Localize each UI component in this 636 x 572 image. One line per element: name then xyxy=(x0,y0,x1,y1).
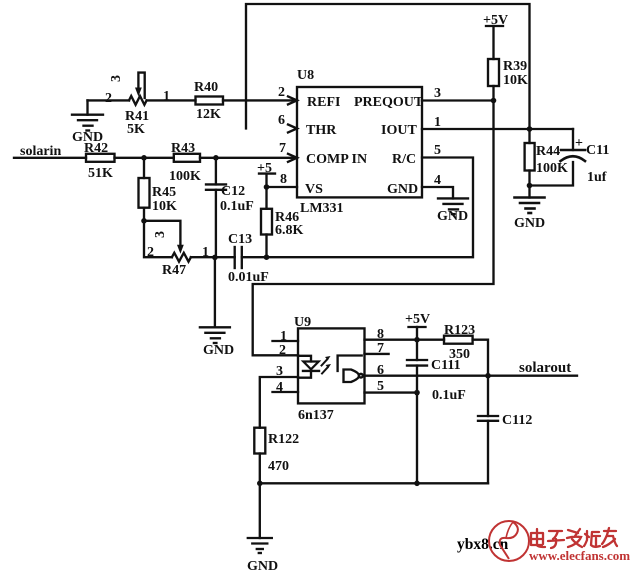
junction R44/C11 bottom xyxy=(527,183,533,189)
label R47 pin 1 xyxy=(202,245,209,260)
power +5V top symbol xyxy=(486,26,503,59)
label U9 pin 6 xyxy=(377,363,384,378)
svg-text:5: 5 xyxy=(377,379,384,394)
label R45 value xyxy=(152,185,177,214)
label C12 value xyxy=(220,184,254,214)
label C112 xyxy=(502,413,532,428)
label U8 GND xyxy=(387,182,418,197)
ground GND2 symbol xyxy=(515,198,545,214)
photon arrows inside U9 xyxy=(322,356,332,374)
label R39 value xyxy=(503,59,528,88)
label U9 pin 8 xyxy=(377,327,384,342)
wire R39 bottom to PREQOUT junction xyxy=(492,86,494,101)
svg-text:R123: R123 xyxy=(444,323,475,338)
resistor R123 xyxy=(444,336,473,344)
label U8 REFI xyxy=(307,95,340,110)
label pin 2 REFI xyxy=(278,85,285,100)
svg-text:10K: 10K xyxy=(503,73,528,88)
label pin 7 COMP IN xyxy=(279,141,286,156)
junction R42/R45 xyxy=(141,155,147,161)
op-amp U8 LM331 box xyxy=(297,87,422,197)
svg-text:1uf: 1uf xyxy=(587,170,607,185)
svg-text:solarin: solarin xyxy=(20,144,61,159)
label solarin xyxy=(20,144,61,159)
label GND2 xyxy=(514,216,545,231)
capacitor C11 plates xyxy=(561,150,586,161)
label pin 3 xyxy=(434,86,441,101)
junction IOUT/R44 xyxy=(527,126,533,132)
watermark ybx8.cn xyxy=(457,536,509,553)
capacitor C112 plates xyxy=(478,416,498,421)
svg-text:GND: GND xyxy=(387,182,418,197)
wire R122 junction to GND5 xyxy=(259,483,261,538)
svg-text:470: 470 xyxy=(268,459,289,474)
junction rail/C111 xyxy=(414,481,420,487)
logo elecfans circle xyxy=(489,521,529,561)
potentiometer R41 wiper xyxy=(135,73,145,98)
svg-text:3: 3 xyxy=(153,231,168,238)
capacitor C11 bottom wire xyxy=(530,162,574,186)
capacitor C11 top wire xyxy=(572,129,574,150)
resistor R40 xyxy=(196,97,224,105)
wire PREQOUT pin 3 xyxy=(422,99,494,101)
wire top loop to R44 xyxy=(528,129,530,143)
svg-text:10K: 10K xyxy=(152,199,177,214)
wire R45 bottom to junction xyxy=(143,208,145,221)
capacitor C112 top wire xyxy=(487,376,489,416)
svg-text:IOUT: IOUT xyxy=(381,123,417,138)
capacitor C112 bottom wire xyxy=(487,421,489,484)
junction solarout/C112 xyxy=(485,373,491,379)
label R44 value xyxy=(536,144,568,176)
power +5 VS bar xyxy=(259,174,275,187)
label GND4 xyxy=(203,343,234,358)
svg-text:REFI: REFI xyxy=(307,95,340,110)
svg-text:6: 6 xyxy=(377,363,384,378)
wire R122 bottom to rail junction xyxy=(259,454,261,484)
svg-text:0.1uF: 0.1uF xyxy=(220,199,254,214)
label R42 value xyxy=(84,141,113,181)
svg-text:R43: R43 xyxy=(171,141,195,156)
wire R47 pin1 to C12/C13 junction xyxy=(191,256,235,258)
potentiometer R41 zigzag xyxy=(129,96,147,105)
label U9 xyxy=(294,315,311,330)
label GND3 xyxy=(437,209,468,224)
junction PREQOUT/R39 xyxy=(491,98,497,104)
svg-text:5: 5 xyxy=(434,143,441,158)
svg-text:U9: U9 xyxy=(294,315,311,330)
label GND1 xyxy=(72,130,103,145)
wire U9 pin1 stub xyxy=(273,340,299,342)
ground GND4 wire xyxy=(214,257,216,327)
label GND5 xyxy=(247,559,278,572)
resistor R122 xyxy=(254,428,265,454)
label +5V bottom xyxy=(405,312,430,327)
junction R122/rail xyxy=(257,481,263,487)
label U8 R/C xyxy=(392,152,416,167)
svg-text:+5: +5 xyxy=(257,161,272,176)
label R47 pin 2 xyxy=(147,245,154,260)
label U8 xyxy=(297,68,314,83)
svg-text:3: 3 xyxy=(276,364,283,379)
svg-text:8: 8 xyxy=(280,172,287,187)
label R41 pin 3 rotated xyxy=(109,75,124,82)
logo elecfans url xyxy=(529,548,630,563)
wire R44 bottom xyxy=(528,171,530,198)
junction pin8/+5V xyxy=(414,337,420,343)
svg-text:5K: 5K xyxy=(127,122,145,137)
label R47 xyxy=(162,263,186,278)
svg-text:+5V: +5V xyxy=(405,312,430,327)
resistor R43 xyxy=(174,154,200,162)
label R46 value xyxy=(275,210,304,238)
label R47 pin 3 rotated xyxy=(153,231,168,238)
svg-text:R47: R47 xyxy=(162,263,186,278)
label R41 pin 1 xyxy=(163,89,170,104)
label U8 THR xyxy=(306,123,337,138)
resistor R39 xyxy=(488,59,499,86)
label U9 pin 2 xyxy=(279,343,286,358)
label U8 VS xyxy=(305,182,323,197)
svg-text:3: 3 xyxy=(434,86,441,101)
label +5V top xyxy=(483,13,508,28)
label C11 plus xyxy=(575,136,583,151)
node solarin input wire xyxy=(14,157,86,159)
wire R40 to REFI pin 2 xyxy=(223,99,297,101)
svg-text:4: 4 xyxy=(276,380,283,395)
svg-text:1: 1 xyxy=(434,115,441,130)
svg-text:4: 4 xyxy=(434,173,441,188)
label U8 IOUT xyxy=(381,123,417,138)
label solarout xyxy=(519,360,571,376)
potentiometer R47 wiper arrow xyxy=(177,245,184,254)
svg-text:0.01uF: 0.01uF xyxy=(228,270,269,285)
wire U9 pin7 stub xyxy=(365,353,389,355)
svg-text:7: 7 xyxy=(377,341,384,356)
svg-text:2: 2 xyxy=(278,85,285,100)
wire C13 to R46 bottom junction and R/C loop xyxy=(242,158,473,258)
svg-text:GND: GND xyxy=(203,343,234,358)
label pin 4 xyxy=(434,173,441,188)
ground GND1 wire xyxy=(86,100,88,114)
label U9 pin 4 xyxy=(276,380,283,395)
svg-text:12K: 12K xyxy=(196,107,221,122)
junction +5/VS pin8 xyxy=(264,184,270,190)
junction R43/C12 xyxy=(213,155,219,161)
svg-text:6.8K: 6.8K xyxy=(275,223,304,238)
svg-text:8: 8 xyxy=(377,327,384,342)
svg-text:GND: GND xyxy=(247,559,278,572)
label pin 8 VS xyxy=(280,172,287,187)
label LM331 xyxy=(300,201,344,216)
resistor R45 xyxy=(139,178,150,208)
logo elecfans brand glyphs xyxy=(531,528,617,548)
detector gate inside U9 xyxy=(338,356,365,383)
label U9 pin 3 xyxy=(276,364,283,379)
resistor R42 xyxy=(86,154,115,162)
svg-text:R39: R39 xyxy=(503,59,527,74)
svg-text:7: 7 xyxy=(279,141,286,156)
capacitor C12 plates xyxy=(206,184,226,189)
label U9 pin 5 xyxy=(377,379,384,394)
svg-text:R40: R40 xyxy=(194,80,218,95)
wire VS pin 8 xyxy=(267,186,298,188)
label R41 pin 2 xyxy=(105,91,112,106)
wire +5V to C111 xyxy=(416,340,418,360)
svg-text:VS: VS xyxy=(305,182,323,197)
junction pin5/C111 xyxy=(414,390,420,396)
optocoupler U9 6n137 box xyxy=(298,328,365,403)
label pin 5 xyxy=(434,143,441,158)
pin arrow pin7 COMP IN xyxy=(288,154,297,162)
wire U9 pin8 to R123 xyxy=(365,339,445,341)
label C13 value xyxy=(228,232,269,285)
svg-text:C112: C112 xyxy=(502,413,532,428)
label +5 VS xyxy=(257,161,272,176)
wire R46 bottom xyxy=(265,235,267,258)
junction R47/C12/C13/GND xyxy=(212,255,218,261)
LED inside U9 xyxy=(298,356,319,378)
wire junction to R47 wiper xyxy=(144,221,180,246)
resistor R45 wire xyxy=(143,158,145,178)
label U8 COMP IN xyxy=(306,152,367,167)
svg-text:2: 2 xyxy=(147,245,154,260)
svg-text:GND: GND xyxy=(72,130,103,145)
wire bottom ground rail xyxy=(260,482,488,484)
label U9 pin 1 xyxy=(280,329,287,344)
label C111 value xyxy=(431,358,466,403)
ground GND4 symbol xyxy=(200,327,230,343)
svg-text:R122: R122 xyxy=(268,432,299,447)
ground GND3 symbol xyxy=(438,198,468,214)
label 6n137 xyxy=(298,408,334,423)
junction R45/R47 xyxy=(141,218,147,224)
label pin 6 THR xyxy=(278,113,285,128)
svg-text:2: 2 xyxy=(279,343,286,358)
potentiometer R47 zigzag xyxy=(172,253,191,262)
power +5V bottom symbol xyxy=(409,327,426,340)
svg-text:0.1uF: 0.1uF xyxy=(432,388,466,403)
svg-text:100K: 100K xyxy=(169,169,201,184)
wire R39 node down and left to U9 pin2 (loop B) xyxy=(253,101,494,356)
resistor R44 xyxy=(525,143,535,171)
svg-text:6n137: 6n137 xyxy=(298,408,334,423)
svg-text:www.elecfans.com: www.elecfans.com xyxy=(529,548,630,563)
wire R43 to COMP IN pin 7 xyxy=(200,157,297,159)
pin arrow pin2 REFI xyxy=(288,96,297,104)
svg-text:GND: GND xyxy=(514,216,545,231)
label U9 pin 7 xyxy=(377,341,384,356)
junction R46 bottom xyxy=(264,254,270,260)
svg-text:1: 1 xyxy=(163,89,170,104)
wire U9 pin5 to C111 xyxy=(365,391,418,393)
svg-text:GND: GND xyxy=(437,209,468,224)
svg-text:1: 1 xyxy=(280,329,287,344)
svg-text:R45: R45 xyxy=(152,185,176,200)
label R40 value xyxy=(194,80,221,122)
svg-text:LM331: LM331 xyxy=(300,201,344,216)
svg-text:51K: 51K xyxy=(88,166,113,181)
svg-text:THR: THR xyxy=(306,123,337,138)
svg-text:C11: C11 xyxy=(586,143,609,158)
svg-text:100K: 100K xyxy=(536,161,568,176)
wire IOUT pin 1 to R44/C11 xyxy=(422,128,573,130)
ground GND1 symbol xyxy=(72,115,103,131)
capacitor C13 plates xyxy=(235,247,242,268)
wire +5 to R46 xyxy=(265,187,267,209)
label R122 value xyxy=(268,432,299,474)
label R123 value xyxy=(444,323,475,362)
label R41 value xyxy=(125,109,149,137)
wire top feedback loop THR to IOUT/R44 node xyxy=(246,4,530,129)
wire U9 pin6 solarout line xyxy=(365,375,578,377)
label C11 value xyxy=(586,143,609,185)
wire R45 junction down to R47 pin2 xyxy=(144,221,172,257)
capacitor C12 top wire xyxy=(215,158,217,185)
svg-text:U8: U8 xyxy=(297,68,314,83)
svg-text:2: 2 xyxy=(105,91,112,106)
capacitor C111 plates xyxy=(407,360,427,366)
svg-text:6: 6 xyxy=(278,113,285,128)
svg-text:R44: R44 xyxy=(536,144,560,159)
svg-text:R/C: R/C xyxy=(392,152,416,167)
svg-text:C12: C12 xyxy=(221,184,245,199)
svg-text:3: 3 xyxy=(109,75,124,82)
svg-text:COMP IN: COMP IN xyxy=(306,152,367,167)
svg-text:C111: C111 xyxy=(431,358,461,373)
wire GND pin 4 xyxy=(422,187,453,198)
svg-text:1: 1 xyxy=(202,245,209,260)
wire U9 pin4 stub xyxy=(273,391,299,393)
svg-text:+: + xyxy=(575,136,583,151)
pin arrow pin6 THR xyxy=(288,125,297,133)
ground GND5 symbol xyxy=(248,538,272,553)
wire R42 to R43 xyxy=(115,157,174,159)
svg-text:+5V: +5V xyxy=(483,13,508,28)
capacitor C12 bottom wire xyxy=(215,190,217,258)
resistor R46 xyxy=(261,209,272,235)
wire R123 to solarout junction xyxy=(473,340,488,376)
wire R41 pin2 to GND corner xyxy=(88,99,130,101)
svg-text:PREQOUT: PREQOUT xyxy=(354,95,424,110)
wire C111 bottom to rail xyxy=(416,366,418,484)
svg-text:solarout: solarout xyxy=(519,360,571,376)
wire U9 pin3 to R122 xyxy=(260,377,298,428)
label U8 PREQOUT xyxy=(354,95,424,110)
wire R41 pin1 to R40 xyxy=(147,99,196,101)
label pin 1 xyxy=(434,115,441,130)
svg-text:C13: C13 xyxy=(228,232,252,247)
label R43 value xyxy=(169,141,201,184)
